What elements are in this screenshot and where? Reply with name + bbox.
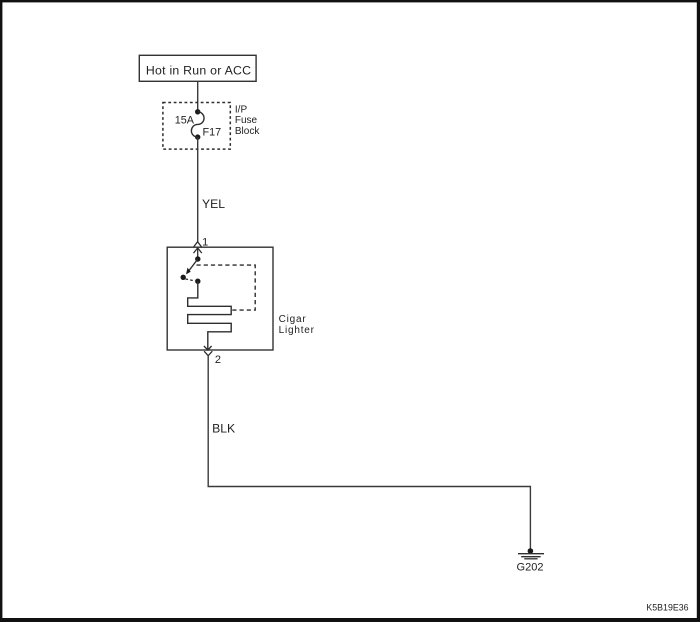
wire: cigar lighter to ground (BLK) xyxy=(208,356,530,551)
arrow at pin 2 inside box xyxy=(204,346,212,350)
svg-text:BLK: BLK xyxy=(212,421,235,435)
pin 2 connector chevron xyxy=(204,351,212,356)
svg-text:15A: 15A xyxy=(175,115,195,127)
label: I/P Fuse Block xyxy=(235,104,260,137)
wire: fuse to cigar lighter pin 1 (YEL) xyxy=(197,137,199,242)
svg-text:Block: Block xyxy=(235,126,260,137)
svg-text:I/P: I/P xyxy=(235,104,248,115)
svg-text:Cigar: Cigar xyxy=(279,314,307,325)
svg-text:G202: G202 xyxy=(517,561,544,573)
svg-text:F17: F17 xyxy=(203,127,222,139)
svg-text:Lighter: Lighter xyxy=(279,325,315,336)
ground G202 xyxy=(517,548,544,573)
label: Cigar Lighter xyxy=(279,314,315,336)
svg-text:YEL: YEL xyxy=(202,197,225,211)
svg-text:Hot in Run or ACC: Hot in Run or ACC xyxy=(146,64,251,78)
svg-text:K5B19E36: K5B19E36 xyxy=(646,602,688,612)
svg-text:Fuse: Fuse xyxy=(235,115,258,126)
svg-text:2: 2 xyxy=(215,354,221,366)
wire: hot box to fuse xyxy=(197,81,199,112)
pin 1 connector chevron xyxy=(193,242,202,248)
node: Hot in Run or ACC box xyxy=(139,55,256,81)
cigar lighter box xyxy=(167,247,273,350)
I/P fuse block (dashed box) xyxy=(163,103,230,150)
dashed feedback path inside cigar lighter xyxy=(197,265,256,310)
pin 1 arrow inside xyxy=(194,248,202,259)
heating element xyxy=(188,281,232,349)
switch inside cigar lighter xyxy=(181,256,201,284)
fuse F17 15A xyxy=(175,109,221,140)
